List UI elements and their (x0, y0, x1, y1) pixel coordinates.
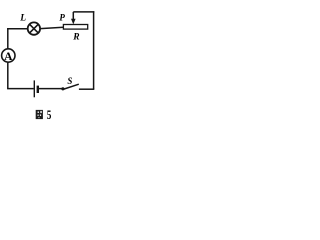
slider P (stem + arrowhead onto rheostat) (71, 12, 76, 25)
wire right vertical (bottom corner up to top-right corner) (93, 11, 95, 89)
wire left vertical upper (top corner down to ammeter) (7, 28, 9, 48)
wire switch fixed contact to bottom-right corner (79, 88, 94, 90)
caption: hand-drawn CJK 图 (36, 110, 43, 119)
lamp L (circle with X) (28, 22, 40, 34)
wire top-right horizontal (slider stem to right corner) (73, 11, 94, 13)
wire top-left horizontal (node from ammeter branch to lamp) (7, 28, 27, 30)
svg-text:A: A (4, 51, 13, 63)
ammeter A (2, 49, 15, 63)
svg-text:5: 5 (47, 107, 52, 122)
wire lamp to rheostat left terminal (41, 27, 64, 28)
wire bottom-middle (battery to switch pivot) (39, 88, 63, 90)
switch S (pivot dot, open lever, fixed contact) (61, 84, 79, 90)
wire left vertical lower (ammeter to bottom corner) (7, 63, 9, 89)
rheostat R body (63, 25, 87, 30)
wire bottom-left horizontal (corner to battery) (7, 88, 34, 90)
svg-text:L: L (19, 13, 26, 23)
battery cell (long plate +, short plate -) (34, 80, 38, 97)
svg-text:P: P (59, 12, 65, 22)
svg-text:S: S (67, 76, 72, 86)
svg-text:R: R (72, 32, 79, 42)
